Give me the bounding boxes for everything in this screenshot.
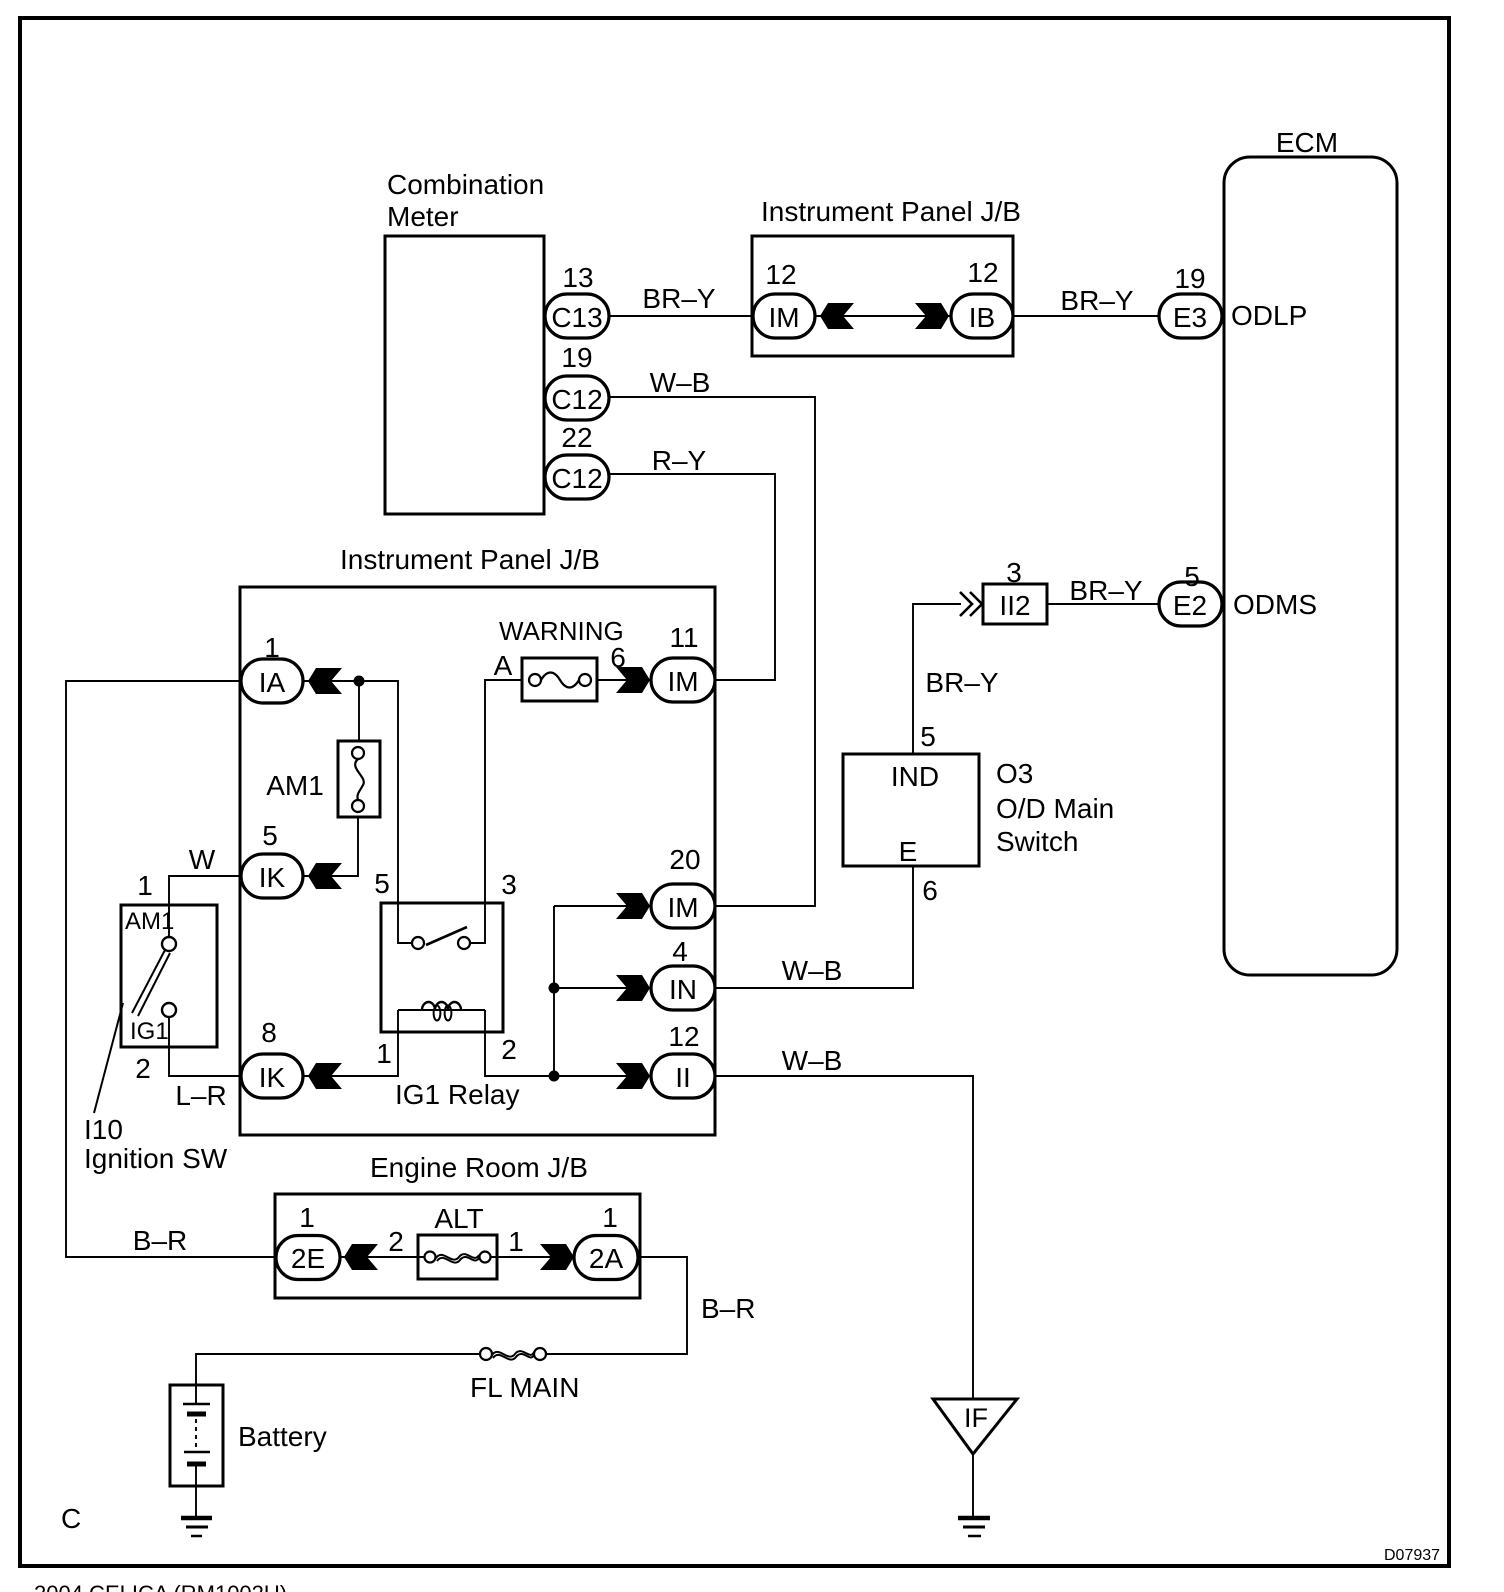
svg-text:1: 1 (264, 632, 280, 663)
svg-text:O3: O3 (996, 758, 1033, 789)
svg-text:E3: E3 (1173, 302, 1207, 333)
svg-text:Combination: Combination (387, 169, 544, 200)
svg-text:A: A (494, 650, 513, 681)
svg-text:6: 6 (610, 642, 626, 673)
svg-text:1: 1 (376, 1038, 392, 1069)
svg-text:Engine Room J/B: Engine Room J/B (370, 1152, 588, 1183)
svg-text:C: C (61, 1503, 81, 1534)
svg-text:IB: IB (969, 302, 995, 333)
svg-text:B–R: B–R (701, 1293, 755, 1324)
svg-text:ECM: ECM (1276, 127, 1338, 158)
svg-text:O/D Main: O/D Main (996, 793, 1114, 824)
svg-text:22: 22 (561, 422, 592, 453)
svg-text:WARNING: WARNING (499, 616, 624, 646)
svg-text:W–B: W–B (782, 1045, 843, 1076)
svg-text:Ignition SW: Ignition SW (84, 1143, 228, 1174)
svg-text:FL MAIN: FL MAIN (470, 1372, 579, 1403)
svg-text:13: 13 (562, 262, 593, 293)
svg-text:BR–Y: BR–Y (925, 667, 998, 698)
svg-text:IG1: IG1 (130, 1018, 169, 1045)
svg-text:IG1 Relay: IG1 Relay (395, 1079, 520, 1110)
svg-text:I10: I10 (84, 1114, 123, 1145)
svg-text:1: 1 (299, 1202, 315, 1233)
svg-text:3: 3 (501, 869, 517, 900)
svg-text:Battery: Battery (238, 1421, 327, 1452)
svg-text:Instrument Panel J/B: Instrument Panel J/B (761, 196, 1021, 227)
svg-text:C12: C12 (551, 463, 602, 494)
svg-text:IK: IK (259, 862, 286, 893)
svg-text:C12: C12 (551, 384, 602, 415)
svg-text:ODMS: ODMS (1233, 589, 1317, 620)
svg-text:5: 5 (920, 721, 936, 752)
svg-text:12: 12 (967, 257, 998, 288)
svg-text:IM: IM (667, 666, 698, 697)
svg-text:IN: IN (669, 974, 697, 1005)
svg-text:4: 4 (672, 936, 688, 967)
svg-text:W–B: W–B (782, 955, 843, 986)
svg-text:1: 1 (508, 1226, 524, 1257)
svg-text:5: 5 (374, 868, 390, 899)
svg-text:II2: II2 (999, 590, 1030, 621)
svg-text:2A: 2A (589, 1243, 624, 1274)
svg-text:8: 8 (261, 1017, 277, 1048)
svg-text:Meter: Meter (387, 201, 459, 232)
svg-text:19: 19 (1174, 263, 1205, 294)
svg-text:1: 1 (602, 1202, 618, 1233)
svg-text:R–Y: R–Y (652, 445, 707, 476)
svg-text:ODLP: ODLP (1231, 300, 1307, 331)
svg-text:20: 20 (669, 844, 700, 875)
svg-text:12: 12 (668, 1021, 699, 1052)
svg-text:E2: E2 (1173, 590, 1207, 621)
svg-text:IF: IF (964, 1403, 988, 1433)
svg-text:5: 5 (1184, 561, 1200, 592)
svg-text:2: 2 (501, 1034, 517, 1065)
svg-text:BR–Y: BR–Y (1060, 285, 1133, 316)
svg-text:3: 3 (1006, 557, 1022, 588)
svg-text:W–B: W–B (650, 367, 711, 398)
svg-text:E: E (899, 836, 918, 867)
svg-text:ALT: ALT (434, 1203, 483, 1234)
svg-text:5: 5 (262, 820, 278, 851)
svg-text:6: 6 (922, 875, 938, 906)
svg-text:2: 2 (135, 1053, 151, 1084)
svg-text:1: 1 (137, 870, 153, 901)
svg-text:II: II (675, 1062, 691, 1093)
svg-text:2E: 2E (291, 1243, 325, 1274)
svg-text:C13: C13 (551, 302, 602, 333)
svg-text:L–R: L–R (175, 1080, 226, 1111)
svg-text:Switch: Switch (996, 826, 1078, 857)
svg-text:B–R: B–R (133, 1225, 187, 1256)
svg-text:IM: IM (667, 892, 698, 923)
svg-text:D07937: D07937 (1384, 1547, 1440, 1564)
svg-text:IK: IK (259, 1062, 286, 1093)
svg-text:W: W (189, 844, 216, 875)
svg-text:11: 11 (669, 622, 698, 653)
svg-text:Instrument Panel J/B: Instrument Panel J/B (340, 544, 600, 575)
svg-text:AM1: AM1 (266, 770, 324, 801)
svg-text:IA: IA (259, 667, 286, 698)
svg-text:BR–Y: BR–Y (1069, 575, 1142, 606)
svg-text:IND: IND (891, 761, 939, 792)
svg-text:BR–Y: BR–Y (642, 283, 715, 314)
svg-text:19: 19 (561, 342, 592, 373)
svg-text:2004 CELICA (RM1002U): 2004 CELICA (RM1002U) (34, 1581, 287, 1592)
svg-text:2: 2 (388, 1226, 404, 1257)
svg-text:AM1: AM1 (125, 908, 174, 935)
svg-text:12: 12 (765, 259, 796, 290)
svg-text:IM: IM (768, 302, 799, 333)
